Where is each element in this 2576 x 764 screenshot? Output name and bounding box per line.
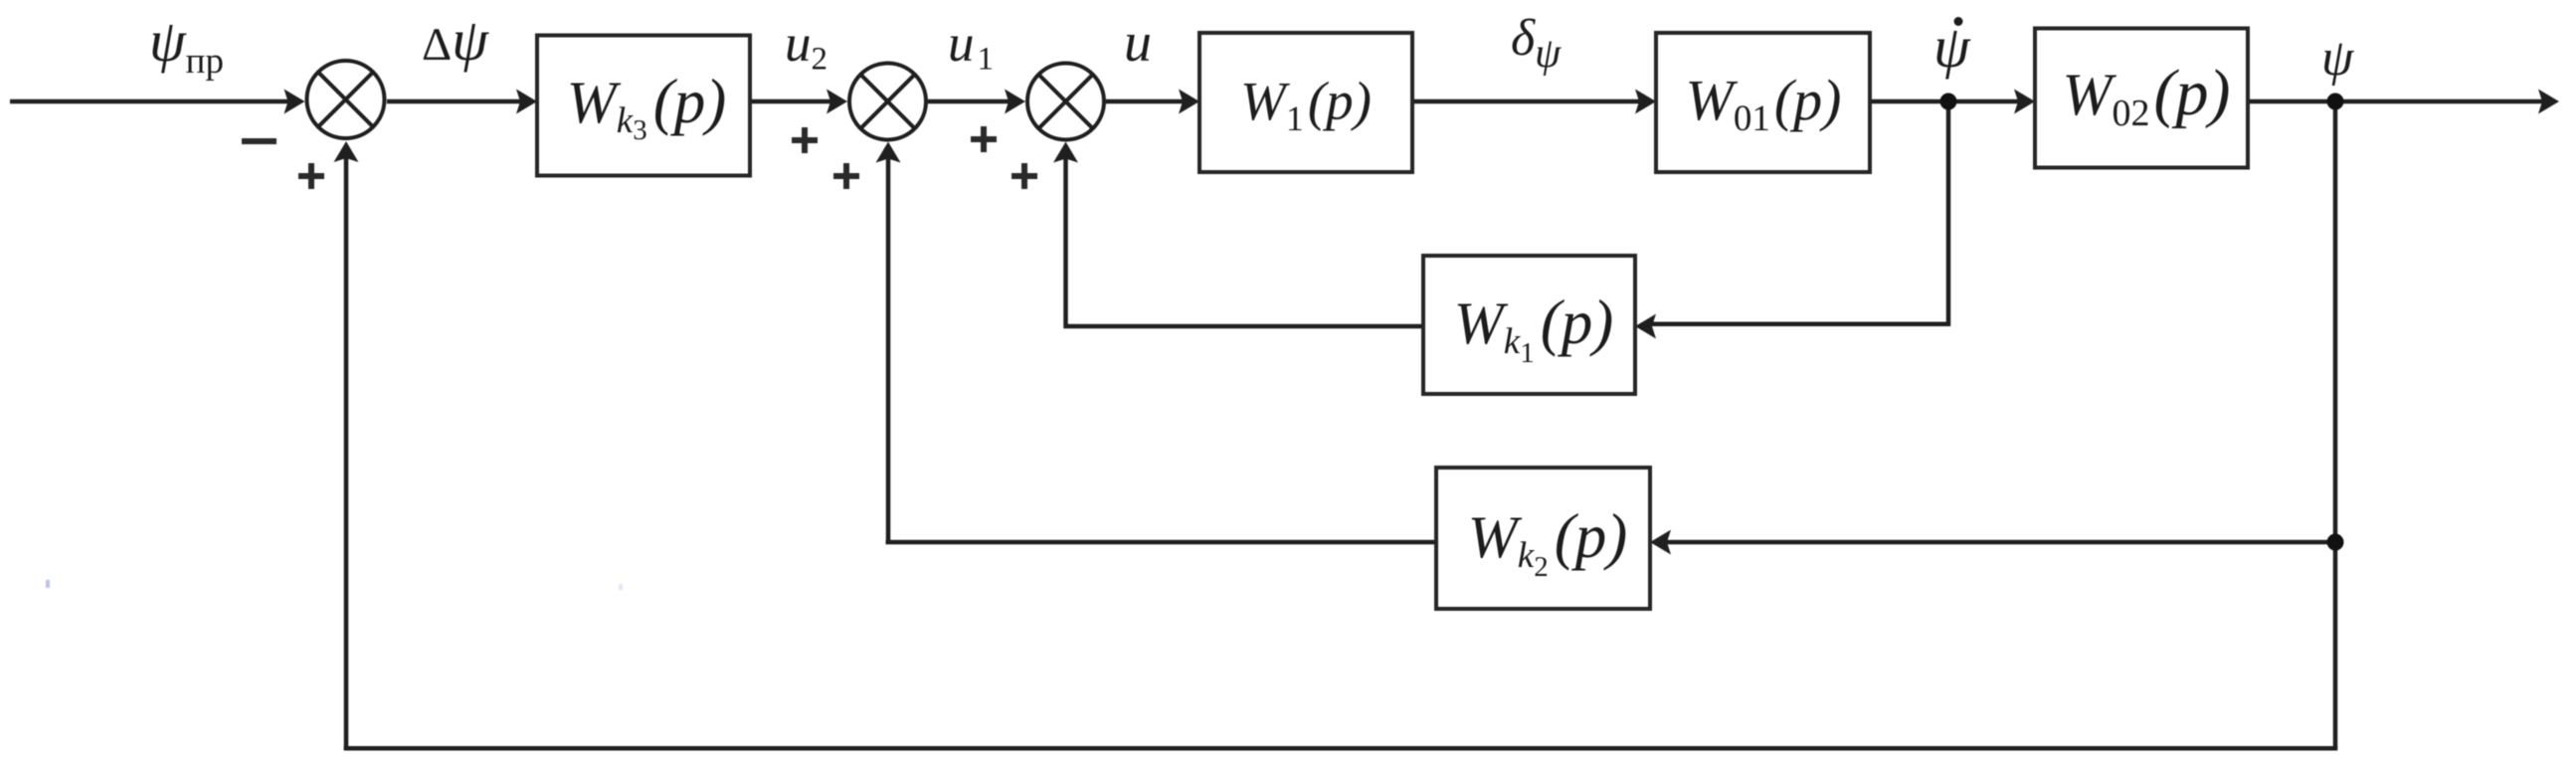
svg-text:ψ: ψ [2321, 30, 2355, 87]
svg-text:ψ: ψ [1933, 14, 1971, 80]
svg-text:u: u [1124, 12, 1152, 74]
